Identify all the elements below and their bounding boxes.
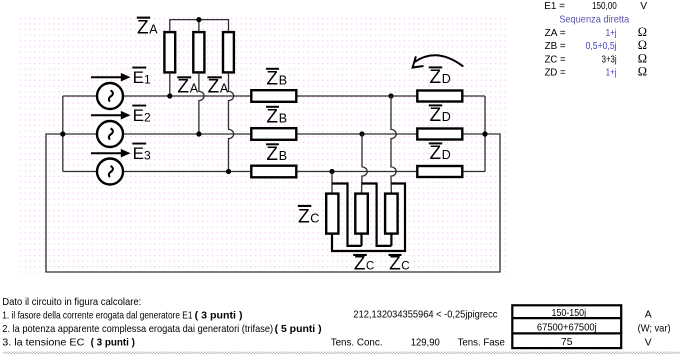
wire: phase 1 segment a xyxy=(123,95,251,97)
arrow E3 xyxy=(91,149,131,158)
value panel: E1 row xyxy=(544,1,647,79)
svg-text:( 5 punti ): ( 5 punti ) xyxy=(275,324,322,335)
wire: neutral return loop xyxy=(46,134,500,272)
svg-text:E1 =: E1 = xyxy=(544,1,565,12)
svg-text:Ω: Ω xyxy=(638,65,647,79)
svg-text:ZB =: ZB = xyxy=(545,41,566,52)
label E3 xyxy=(132,143,151,164)
svg-text:Ω: Ω xyxy=(638,51,647,65)
label ZD1 xyxy=(429,66,451,87)
wire: phase 2 segment b xyxy=(296,133,417,135)
label ZA top xyxy=(137,17,159,39)
node: ZA2 phase-2 dot xyxy=(196,131,201,136)
svg-text:(W; var): (W; var) xyxy=(638,324,671,335)
question text lines xyxy=(2,297,670,349)
label ZC bottom2 xyxy=(389,253,410,274)
svg-text:2. la potenza apparente comple: 2. la potenza apparente complessa erogat… xyxy=(2,324,273,335)
answer box frame xyxy=(512,305,621,348)
label E1 xyxy=(132,67,151,88)
resistor ZC3 xyxy=(385,194,398,234)
resistor ZB3 xyxy=(251,166,296,178)
wire: phase 2 segment a xyxy=(123,133,251,135)
svg-text:3. la tensione EC: 3. la tensione EC xyxy=(2,337,85,348)
arrow: rotation arc above ZD xyxy=(413,55,464,67)
svg-text:V: V xyxy=(645,337,652,348)
wire: generator 3 left stub xyxy=(63,171,97,173)
generator E2 xyxy=(97,121,123,147)
value panel: ohm units xyxy=(638,25,647,79)
resistor ZD1 xyxy=(417,91,462,102)
label ZA mid2 xyxy=(207,76,229,97)
svg-text:0,5+0,5j: 0,5+0,5j xyxy=(586,41,617,52)
wire: ZA1 to phase 1 xyxy=(169,72,171,96)
generator E3 xyxy=(97,159,123,185)
svg-text:ZD =: ZD = xyxy=(545,68,566,79)
wire: ZC branch phase1 to ZC1 bottom (outer bracket) xyxy=(332,184,405,252)
wire: ZC branch phase2 to ZC3 bottom xyxy=(362,184,392,246)
label ZB2 xyxy=(266,106,287,128)
svg-text:Ω: Ω xyxy=(638,38,647,52)
node: ZC3 phase-1 dot xyxy=(388,93,393,98)
node: ZD star dot xyxy=(482,131,487,136)
wire: phase 3 segment b xyxy=(297,171,418,173)
svg-text:Sequenza diretta: Sequenza diretta xyxy=(559,15,629,26)
wire: phase 3 segment c xyxy=(462,171,485,173)
resistor ZC2 xyxy=(355,194,368,234)
svg-text:1+j: 1+j xyxy=(606,28,617,39)
wire: ZA2 to phase 2 with hop xyxy=(199,72,204,134)
dotted drawing-canvas background xyxy=(20,17,506,273)
svg-text:Ω: Ω xyxy=(638,25,647,39)
label ZA mid1 xyxy=(177,76,199,97)
svg-text:Tens. Conc.: Tens. Conc. xyxy=(331,337,383,348)
wire: phase 1 segment b xyxy=(296,95,417,97)
wire: ZD star bus (right vertical) xyxy=(484,96,486,172)
wire: ZA star bracket xyxy=(170,20,229,32)
label E2 xyxy=(132,105,151,126)
wire: generator 1 left stub xyxy=(63,95,97,97)
svg-text:( 3 punti ): ( 3 punti ) xyxy=(195,310,243,321)
wire: phase 2 segment c xyxy=(462,133,485,135)
generator E1 xyxy=(97,83,123,109)
node: ZA3 phase-3 dot xyxy=(226,169,231,174)
wire: generator 2 left stub xyxy=(63,133,97,135)
label ZB3 xyxy=(266,143,287,165)
node: ZA1 phase-1 dot xyxy=(167,93,172,98)
svg-text:75: 75 xyxy=(561,337,573,348)
resistor ZD2 xyxy=(417,129,462,140)
svg-text:150,00: 150,00 xyxy=(592,1,617,12)
node: ZC2 phase-2 dot xyxy=(359,131,364,136)
svg-text:ZA =: ZA = xyxy=(545,28,566,39)
resistor ZA2 xyxy=(193,32,204,72)
wire: phase 3 segment a xyxy=(123,171,251,173)
arrow E2 xyxy=(91,111,131,120)
svg-text:212,132034355964 < -0,25jpigre: 212,132034355964 < -0,25jpigrecc xyxy=(353,310,497,321)
svg-text:3+3j: 3+3j xyxy=(602,54,617,65)
label ZD3 xyxy=(429,142,451,163)
resistor ZB2 xyxy=(251,128,296,140)
node: ZC1 phase-3 dot xyxy=(329,169,334,174)
label ZC bottom1 xyxy=(353,253,374,274)
arrow E1 xyxy=(91,73,131,82)
wire: ZA3 to phase 3 with hops xyxy=(229,72,234,171)
svg-text:( 3 punti ): ( 3 punti ) xyxy=(91,337,135,348)
svg-text:1. il fasore della corrente er: 1. il fasore della corrente erogata dal … xyxy=(2,310,192,321)
wire: phase 1 segment c xyxy=(462,95,485,97)
resistor ZC1 xyxy=(326,194,338,234)
resistor ZD3 xyxy=(417,166,462,177)
svg-text:67500+67500j: 67500+67500j xyxy=(537,323,597,334)
resistor ZB1 xyxy=(251,90,296,102)
svg-text:V: V xyxy=(640,1,647,12)
wire: phase 2 to ZC2 top with hop xyxy=(362,134,368,194)
svg-text:Dato il circuito in figura cal: Dato il circuito in figura calcolare: xyxy=(2,297,141,308)
label ZC left xyxy=(298,205,320,227)
label ZB1 xyxy=(266,68,287,90)
resistor ZA3 xyxy=(223,32,234,72)
resistor ZA1 xyxy=(164,32,175,72)
wire: phase 1 to ZC3 top with hops xyxy=(391,96,396,194)
svg-text:A: A xyxy=(645,310,652,321)
label ZD2 xyxy=(429,104,451,125)
svg-text:129,90: 129,90 xyxy=(411,337,440,348)
wire: phase 3 to ZC1 top xyxy=(331,172,333,194)
svg-text:Tens. Fase: Tens. Fase xyxy=(458,337,506,348)
node: ZA star point dot xyxy=(196,17,201,22)
node: neutral junction dot xyxy=(60,131,65,136)
wire: ZC branch phase3 to ZC2 bottom xyxy=(332,184,362,246)
wire: generator neutral bus (left vertical) xyxy=(62,96,64,172)
svg-text:ZC =: ZC = xyxy=(545,54,566,65)
separator: gray dithered rule xyxy=(3,352,680,354)
svg-text:1+j: 1+j xyxy=(606,68,617,79)
